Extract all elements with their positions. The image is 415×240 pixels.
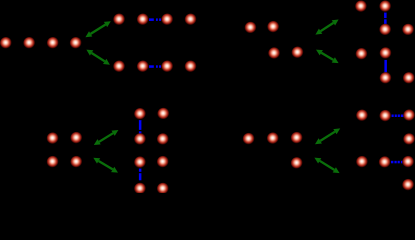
group2 left molecule atom 1: [245, 22, 257, 34]
group1 bottom chain atom 2: [137, 61, 149, 73]
group4 copy2 atom 1: [356, 156, 368, 168]
group4 copy1 atom 3: [403, 109, 415, 121]
G1 bond chain B (atoms 2-3): [149, 65, 161, 68]
group3 square2 atom 4: [157, 183, 169, 195]
group3 square2 atom 1: [134, 156, 146, 168]
G4 bond copy 1 (atoms 2-3): [392, 115, 405, 118]
group3 left molecule atom 4: [70, 156, 82, 168]
group3 left molecule atom 3: [47, 156, 59, 168]
group3 square1 atom 3: [134, 133, 146, 145]
group4 copy2 atom 2: [379, 156, 391, 168]
group3 square1 atom 2: [157, 108, 169, 120]
group2 left molecule atom 2: [267, 21, 279, 33]
group3 square2 atom 2: [157, 156, 169, 168]
group1 top chain atom 4: [185, 14, 197, 26]
group3 left molecule atom 2: [70, 132, 82, 144]
group3 square2 atom 3: [134, 183, 146, 195]
group2 copy1 atom 1: [355, 0, 367, 12]
group4 left molecule atom 3: [291, 132, 303, 144]
G3 lower arrow: [93, 158, 118, 173]
G3 bond square 1 (left column): [139, 120, 142, 134]
group2 copy2 atom 2: [380, 47, 392, 59]
group2 copy1 atom 2: [379, 0, 391, 12]
G1 bond chain A (atoms 2-3): [149, 18, 161, 21]
G2 upper arrow: [315, 20, 338, 35]
group1 bottom chain atom 3: [161, 61, 173, 73]
group2 copy2 atom 3: [380, 72, 392, 84]
G2 bond copy 2 (atoms 2-3): [384, 60, 387, 73]
group1 bottom chain atom 1: [113, 61, 125, 73]
G3 bond square 2 (left column): [139, 168, 142, 181]
group2 copy1 atom 3: [379, 24, 391, 36]
group3 square1 atom 4: [157, 133, 169, 145]
group4 copy1 atom 2: [379, 110, 391, 122]
group1 left molecule atom 1: [0, 37, 12, 49]
group3 left molecule atom 1: [47, 132, 59, 144]
group4 copy1 atom 4: [403, 133, 415, 145]
group4 left molecule atom 1: [243, 133, 255, 145]
group1 bottom chain atom 4: [185, 61, 197, 73]
G1 lower arrow: [86, 50, 110, 65]
group1 top chain atom 3: [161, 14, 173, 26]
group2 copy2 atom 1: [356, 48, 368, 60]
group2 copy1 atom 4: [402, 24, 414, 36]
group4 copy1 atom 1: [356, 110, 368, 122]
G4 bond copy 2 (atoms 2-3): [391, 161, 405, 164]
group1 top chain atom 1: [113, 14, 125, 26]
group4 left molecule atom 4: [291, 157, 303, 169]
group3 square1 atom 1: [134, 108, 146, 120]
G4 lower arrow: [314, 158, 339, 174]
group1 left molecule atom 3: [47, 37, 59, 49]
group4 left molecule atom 2: [267, 132, 279, 144]
group1 top chain atom 2: [137, 14, 149, 26]
G2 lower arrow: [316, 50, 339, 64]
group4 copy2 atom 4: [402, 179, 414, 191]
G3 upper arrow: [94, 130, 119, 145]
group2 left molecule atom 3: [268, 47, 280, 59]
G1 upper arrow: [85, 21, 110, 37]
G2 bond copy 1 (atoms 2-3): [384, 12, 387, 25]
G4 upper arrow: [315, 128, 340, 144]
group4 copy2 atom 3: [402, 156, 414, 168]
group1 left molecule atom 2: [23, 37, 35, 49]
group2 copy2 atom 4: [403, 72, 415, 84]
group2 left molecule atom 4: [292, 47, 304, 59]
group1 left molecule atom 4: [70, 37, 82, 49]
